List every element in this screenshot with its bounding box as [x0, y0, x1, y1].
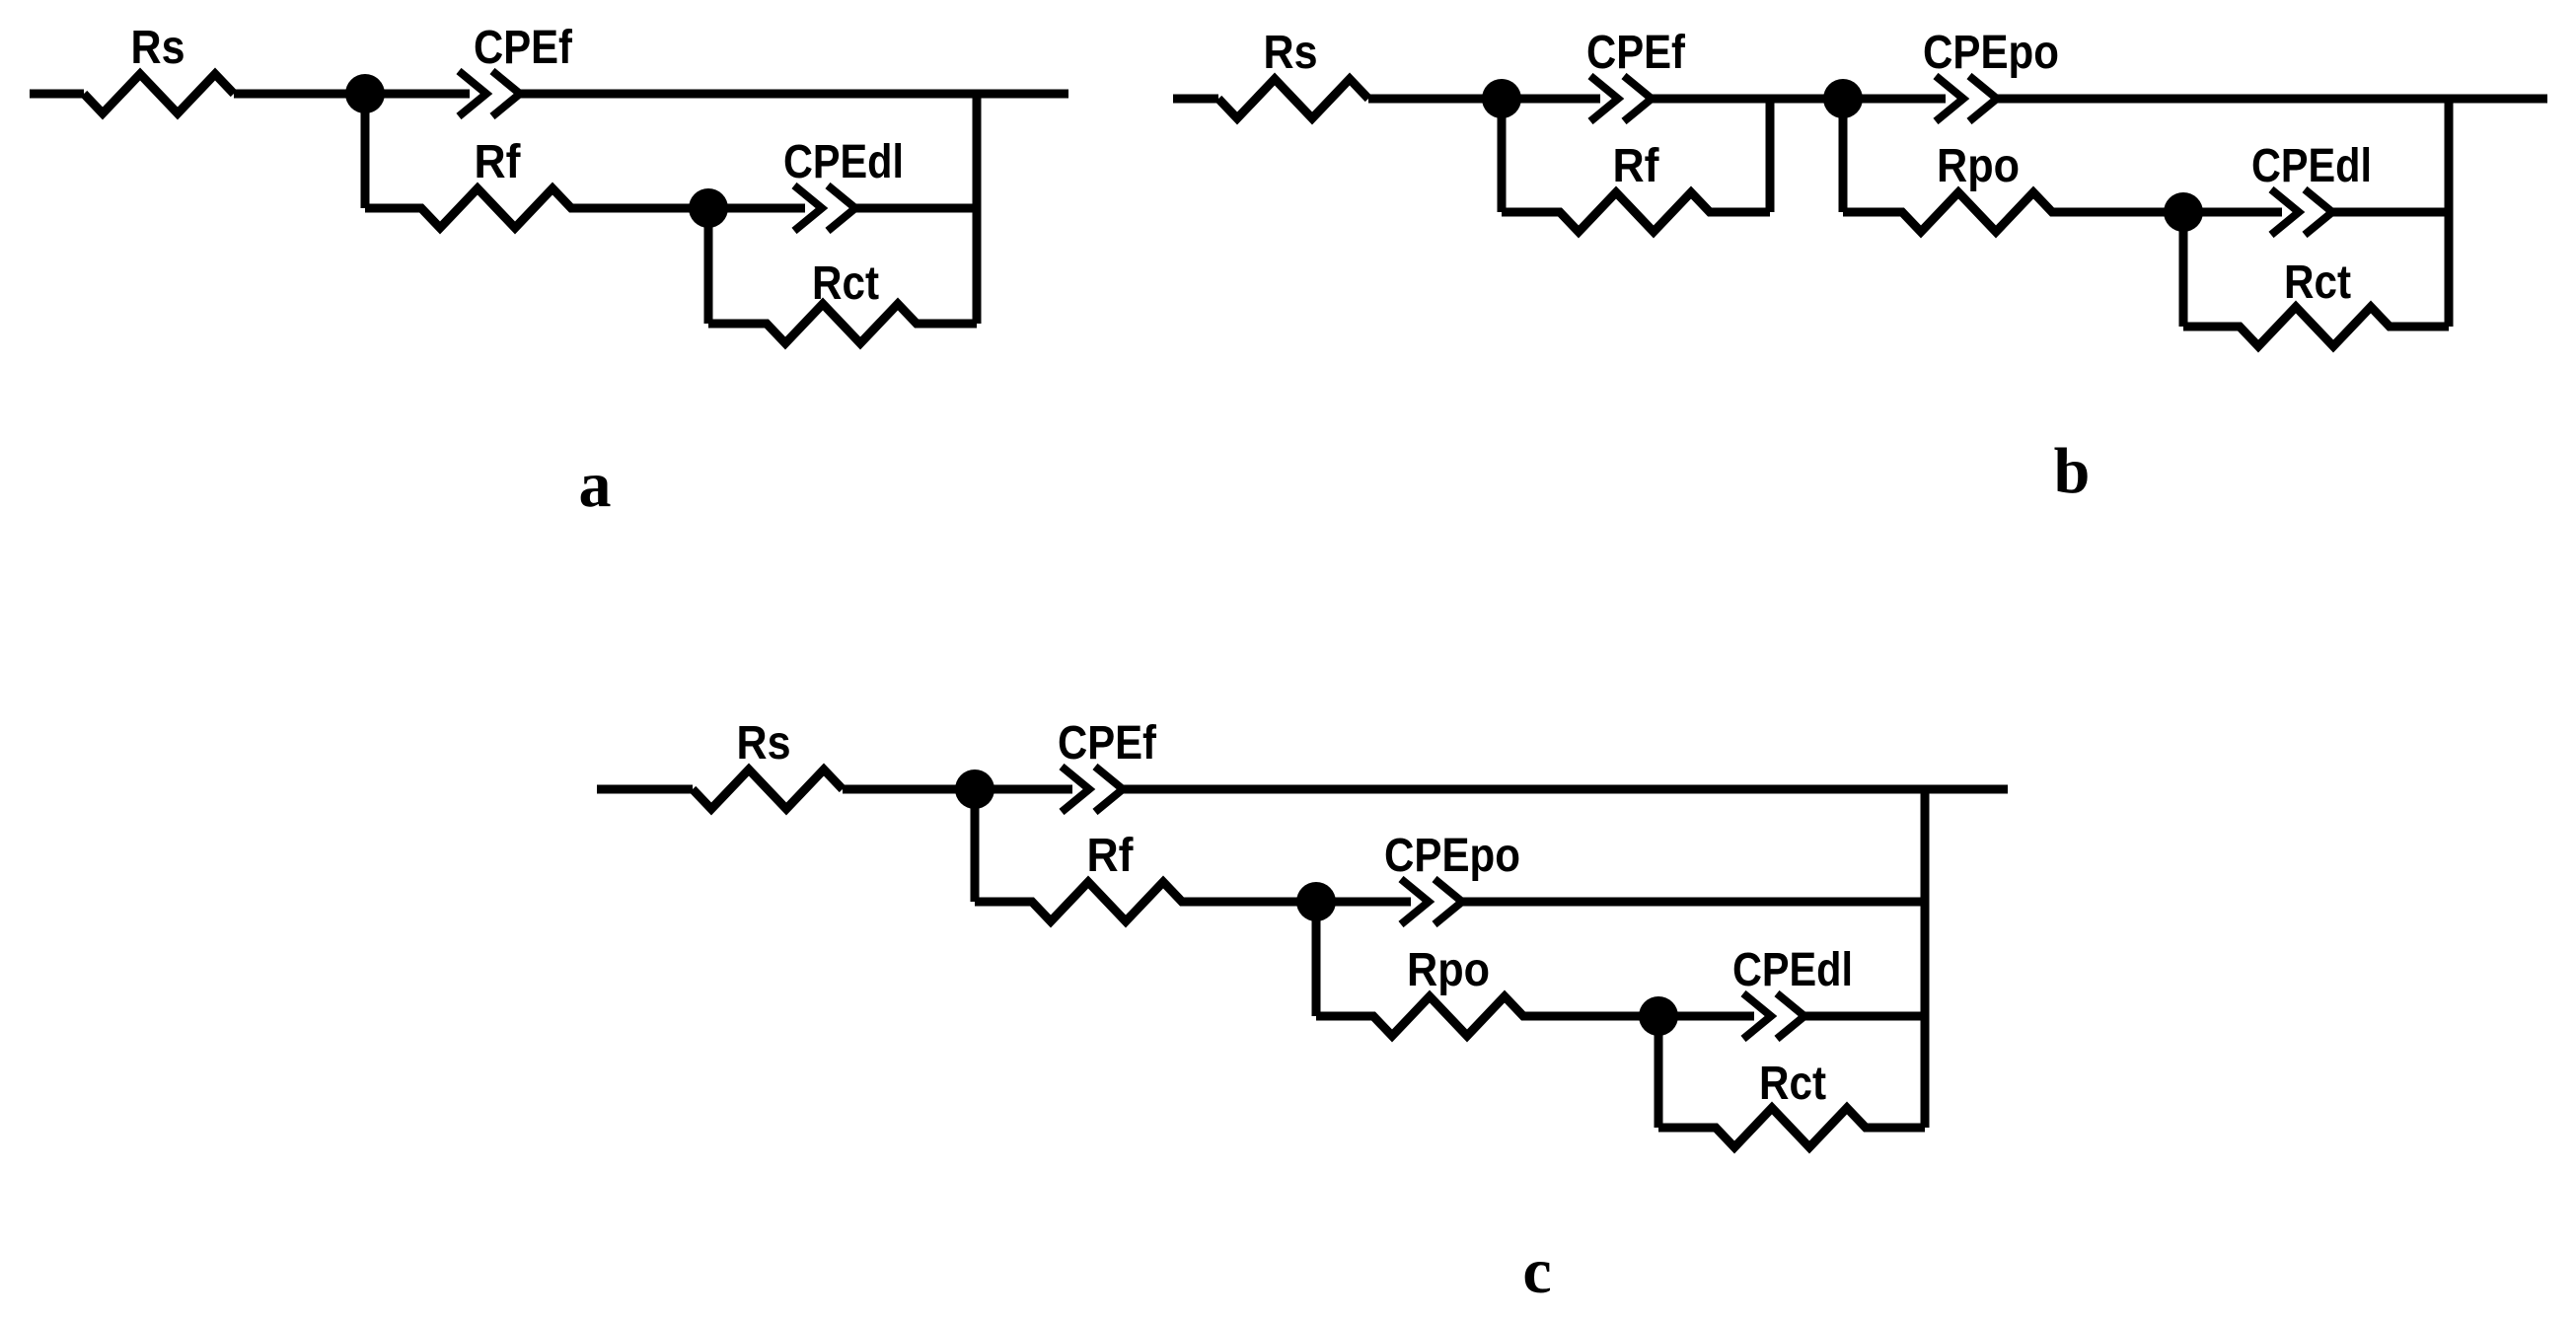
wire a top Rs to CPEf: [234, 90, 470, 99]
wire b node1 drop: [1498, 99, 1507, 212]
wire a CPEdl to right vertical: [855, 204, 977, 213]
node b3: [2164, 192, 2203, 232]
svg-text:Rs: Rs: [131, 22, 185, 74]
capacitor CPEf (a): [459, 71, 520, 116]
wire a node2 drop: [704, 208, 713, 324]
capacitor CPEpo (c): [1401, 879, 1462, 924]
node c3: [1639, 996, 1678, 1036]
node b1: [1482, 79, 1521, 118]
svg-text:CPEdl: CPEdl: [783, 136, 904, 188]
svg-text:Rct: Rct: [1759, 1058, 1826, 1110]
wire c right vertical: [1921, 789, 1930, 1128]
wire a node1 drop: [361, 94, 370, 208]
wire a left lead: [30, 90, 84, 99]
wire b Rf rejoin vertical: [1766, 99, 1775, 212]
wire b mid node3 to CPEdl: [2183, 208, 2282, 217]
node a1: [345, 74, 385, 113]
wire b CPEdl to right vertical: [2332, 208, 2449, 217]
capacitor CPEdl (b): [2271, 189, 2332, 235]
svg-text:a: a: [579, 449, 612, 521]
wire c node3 drop: [1655, 1016, 1663, 1128]
svg-text:Rct: Rct: [812, 257, 879, 310]
svg-text:CPEpo: CPEpo: [1384, 830, 1520, 882]
wire b top Rs to CPEf: [1368, 95, 1600, 104]
svg-text:CPEf: CPEf: [474, 22, 573, 74]
wire a right vertical: [973, 94, 982, 324]
wire c CPEpo to right vertical: [1462, 898, 1925, 907]
wire c mid1 node2 to CPEpo: [1316, 898, 1411, 907]
svg-text:Rct: Rct: [2284, 256, 2351, 309]
svg-text:Rs: Rs: [1264, 27, 1318, 79]
wire b right vertical: [2445, 99, 2454, 327]
wire a mid node2 to CPEdl: [708, 204, 805, 213]
svg-text:CPEpo: CPEpo: [1923, 27, 2059, 79]
resistor Rpo (b): [1843, 192, 2183, 232]
svg-text:CPEdl: CPEdl: [2251, 140, 2372, 192]
resistor Rf (c): [975, 882, 1316, 921]
node a2: [689, 188, 728, 228]
svg-text:Rpo: Rpo: [1407, 944, 1490, 996]
capacitor CPEdl (a): [794, 185, 855, 231]
resistor Rct (a): [708, 304, 977, 343]
wire b top right: [1997, 95, 2547, 104]
resistor Rf (b): [1502, 192, 1770, 232]
capacitor CPEf (b): [1590, 76, 1652, 121]
resistor Rct (b): [2183, 307, 2449, 346]
svg-text:CPEf: CPEf: [1058, 717, 1157, 769]
wire c CPEdl to right vertical: [1804, 1012, 1925, 1021]
svg-text:CPEf: CPEf: [1586, 27, 1686, 79]
wire c top Rs to CPEf: [843, 785, 1072, 794]
svg-text:Rf: Rf: [475, 136, 522, 188]
svg-text:Rpo: Rpo: [1937, 140, 2020, 192]
wire c top right: [1123, 785, 2008, 794]
resistor Rpo (c): [1316, 996, 1658, 1036]
wire c mid2 node3 to CPEdl: [1658, 1012, 1754, 1021]
svg-text:CPEdl: CPEdl: [1732, 944, 1853, 996]
wire b top CPEf to CPEpo: [1652, 95, 1946, 104]
wire a top right: [520, 90, 1068, 99]
svg-text:Rf: Rf: [1087, 830, 1135, 882]
capacitor CPEdl (c): [1743, 993, 1804, 1039]
capacitor CPEpo (b): [1936, 76, 1997, 121]
wire c node2 drop: [1312, 902, 1321, 1016]
resistor Rf (a): [365, 188, 708, 228]
svg-text:b: b: [2054, 435, 2091, 507]
svg-text:c: c: [1522, 1235, 1551, 1307]
svg-text:Rs: Rs: [737, 717, 791, 769]
resistor Rs (a): [84, 74, 234, 113]
capacitor CPEf (c): [1062, 767, 1123, 812]
svg-text:Rf: Rf: [1613, 140, 1660, 192]
resistor Rs (b): [1218, 79, 1368, 118]
wire c node1 drop: [971, 789, 980, 902]
wire b node3 drop: [2179, 212, 2188, 327]
resistor Rct (c): [1658, 1108, 1925, 1147]
wire c left lead: [597, 785, 693, 794]
node c1: [955, 769, 994, 809]
node c2: [1296, 882, 1336, 921]
wire b left lead: [1173, 95, 1218, 104]
resistor Rs (c): [693, 769, 843, 809]
node b2: [1823, 79, 1863, 118]
wire b node2 drop: [1839, 99, 1848, 212]
